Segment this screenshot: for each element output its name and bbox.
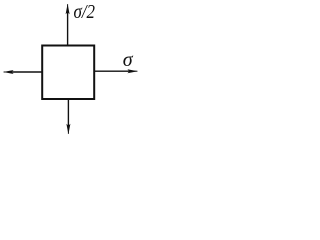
bottom arrow shaft <box>67 99 69 127</box>
right arrow shaft <box>95 70 132 72</box>
top arrowhead tip line <box>67 4 69 12</box>
svg-text:σ/2: σ/2 <box>74 1 96 23</box>
top arrowhead <box>66 4 70 14</box>
square stress element <box>42 46 94 100</box>
left arrowhead tip line <box>4 71 12 73</box>
right arrowhead tip line <box>129 70 137 72</box>
bottom arrowhead <box>66 124 70 134</box>
right arrowhead <box>127 69 137 73</box>
left arrowhead <box>3 70 13 74</box>
top arrow shaft <box>67 11 69 46</box>
left arrow shaft <box>10 71 42 73</box>
bottom arrowhead tip line <box>67 126 69 134</box>
svg-text:σ: σ <box>123 49 134 71</box>
